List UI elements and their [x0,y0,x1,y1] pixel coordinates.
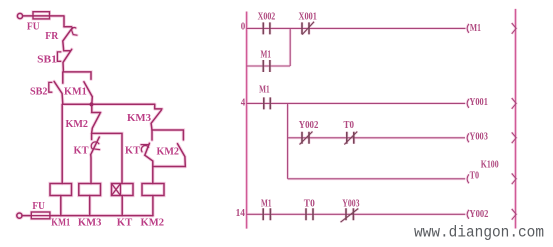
pushbutton SB2 (NO) [54,72,63,104]
terminal bottom-left [17,213,22,218]
rail chevron Y003 [512,132,517,143]
svg-text:T0: T0 [344,120,355,131]
svg-text:4: 4 [241,98,246,109]
contact X002 [263,22,270,34]
rung Y003 wire [288,137,465,139]
coil drop wires [61,196,153,216]
FR heater squiggle [72,28,77,36]
decorative jpeg-like halo under control circuit [17,12,186,219]
svg-text:M1: M1 [470,23,481,34]
left power rail [246,12,248,229]
coil KM2 [142,184,164,196]
pushbutton SB1 (NC) [63,49,72,72]
contact M1 rung4 [264,97,271,109]
contact Y002 (NC) [302,132,309,144]
svg-text:SB1: SB1 [37,54,57,66]
contact KT (NO time-delay close) [145,130,153,167]
svg-text:Y001: Y001 [469,97,488,108]
rung 4 wire [247,102,466,104]
contact T0 rung14 [306,208,313,220]
wire branch top (parallel KM1) [63,72,91,79]
svg-text:X002: X002 [258,11,276,22]
sub-branch vertical [287,103,289,178]
svg-text:KM2: KM2 [66,118,89,130]
svg-text:KT: KT [125,145,141,157]
rail chevron rung14 [512,209,517,220]
contact M1 rung14 [263,208,270,220]
KT right delay arc [141,145,149,152]
coil Y002 paren [467,210,469,219]
right power rail [515,9,517,229]
coil Y003 paren [467,133,469,142]
decorative jpeg-like halo under ladder diagram [247,9,517,229]
terminal top-left [17,13,22,18]
svg-text:KM2: KM2 [141,216,165,228]
fuse FU bottom [31,212,50,219]
contact Y003 (NC) rung14 [346,208,353,220]
svg-text:KM3: KM3 [78,216,102,228]
SB2 actuator bracket [49,82,52,92]
svg-text:X001: X001 [299,11,317,22]
fuse FU top [33,12,50,19]
rail chevron rung0 [512,23,517,34]
coil M1 paren [467,24,469,33]
contact X001 (NC) [302,22,309,34]
wire bottom-left [22,215,31,217]
svg-text:SB2: SB2 [30,86,48,98]
svg-text:M1: M1 [261,50,272,61]
node junction dot [89,102,93,106]
contact KM2 (NO) [178,144,186,167]
svg-text:0: 0 [241,21,246,32]
svg-text:KM2: KM2 [157,146,180,158]
contact KM3 (NC interlock) [151,104,162,130]
svg-text:KM3: KM3 [127,112,151,124]
svg-text:FR: FR [45,30,59,42]
wire left drop to coil KM1 [61,104,63,183]
svg-text:KM1: KM1 [51,216,70,228]
rung 0 wire [247,27,466,29]
svg-text:K100: K100 [481,159,499,170]
svg-text:Y002: Y002 [299,120,319,131]
contact T0 (NC) [347,132,354,144]
svg-text:KM1: KM1 [64,86,87,98]
contact KT (NC time-delay open) [91,133,100,183]
coil KM3 [79,184,101,196]
bottom rail [50,215,153,217]
svg-text:FU: FU [32,200,45,212]
svg-text:M1: M1 [259,84,270,95]
KT delay arc [91,142,99,150]
wire rejoin [153,167,186,184]
rung 14 wire [247,213,466,215]
wire top [23,16,64,27]
svg-text:www.diangon.com: www.diangon.com [414,223,544,241]
svg-text:FU: FU [27,21,40,33]
branch wire M1 [247,28,291,66]
coil KM1 [50,184,72,196]
contact M1 [263,60,270,72]
svg-text:Y002: Y002 [469,209,488,220]
svg-text:Y003: Y003 [342,199,359,210]
svg-text:M1: M1 [261,199,272,210]
rung T0 wire [288,178,466,180]
contact FR (NC thermal) [63,27,73,51]
contact KM2 (NC interlock) [92,104,101,133]
coil Y001 paren [467,99,469,108]
svg-text:KT: KT [117,216,133,228]
svg-text:KT: KT [74,145,90,157]
wire split right [152,130,183,140]
svg-text:T0: T0 [304,199,315,210]
svg-text:14: 14 [236,208,245,219]
wire to KT coil branch [92,133,122,183]
rail chevron T0 [512,173,517,184]
coil T0 paren [467,174,469,183]
svg-text:T0: T0 [470,170,480,181]
contact KM1 (NO self-hold) [84,82,92,105]
rail chevron rung4 [512,98,517,109]
wire node row [63,103,155,105]
svg-text:Y003: Y003 [469,132,488,143]
SB1 actuator bracket [57,52,60,61]
coil KT (time relay) [112,184,134,196]
